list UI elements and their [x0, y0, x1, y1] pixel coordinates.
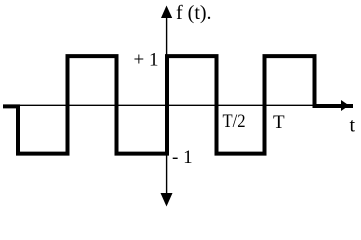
svg-text:+ 1: + 1 — [134, 50, 159, 71]
f(t) axis top arrowhead — [161, 6, 172, 19]
svg-text:- 1: - 1 — [172, 147, 193, 168]
t horizontal axis line — [16, 104, 346, 106]
svg-text:T: T — [273, 112, 285, 133]
svg-text:f (t).: f (t). — [176, 2, 212, 24]
svg-text:T/2: T/2 — [223, 111, 246, 132]
f(t) axis bottom arrowhead — [161, 193, 173, 207]
f(t) vertical axis line — [166, 14, 168, 196]
square wave signal f(t) — [3, 56, 353, 154]
svg-text:t: t — [350, 115, 356, 137]
t axis arrowhead — [341, 100, 349, 111]
